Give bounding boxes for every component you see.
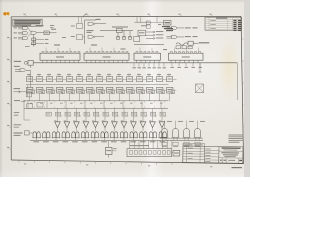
test point stubs TP1-TP3: [146, 31, 163, 39]
bus tie wires: [28, 101, 161, 109]
wire harness to J2: [130, 140, 172, 148]
input connector J1: [14, 60, 33, 68]
gap cluster labels: [50, 26, 66, 38]
power transistors Q40-Q43: [160, 121, 205, 147]
title block: [183, 146, 243, 163]
zone numbers top margin: [24, 13, 213, 16]
bus net labels: [30, 101, 165, 109]
output bus lower: [24, 107, 168, 109]
trimmer network R5: [176, 41, 209, 49]
clock circuit U4: [134, 17, 157, 42]
comparator U5b: [167, 35, 198, 38]
power labels +5V: [54, 45, 167, 50]
shift register U12: [134, 48, 161, 63]
divider chain X1: [25, 34, 48, 46]
strobe gate U6: [14, 66, 31, 87]
oscillator label: [36, 25, 44, 27]
orange handwritten mark: [4, 13, 9, 16]
row B input arrows: [14, 89, 27, 93]
row 8 labels left: [14, 131, 34, 136]
gate U3a: [85, 19, 107, 44]
gate U3b: [87, 31, 105, 39]
revision table: [205, 17, 242, 30]
sheet number note: [232, 167, 243, 169]
drawing border frame: [11, 16, 243, 163]
shift register U11: [84, 48, 129, 63]
connector J2: [127, 146, 172, 157]
comparator U5a: [167, 26, 198, 29]
notes block: [13, 19, 42, 26]
input gates U1 left cluster: [14, 27, 28, 40]
resistor pack row RP1-RP13: [46, 112, 165, 116]
notes paragraph right: [229, 135, 244, 142]
crystal Y1 labels: [150, 21, 173, 31]
output bus upper: [24, 100, 169, 102]
latch row bus: [26, 84, 169, 86]
note text line: [134, 44, 164, 46]
shift register U13: [169, 48, 204, 63]
bus stub labels: [133, 63, 202, 68]
gate U2: [28, 28, 44, 36]
pullup network R3: [71, 35, 85, 40]
register row U40-U54: [27, 87, 177, 100]
shift register U10: [40, 48, 80, 63]
pullup network R1: [71, 17, 83, 29]
emitter bus: [30, 139, 203, 141]
left feed network: [14, 85, 44, 127]
driver triangle row Q1-Q12: [54, 108, 166, 130]
relay K1: [105, 140, 116, 157]
data bus: [34, 63, 238, 100]
zone letters left margin: [7, 38, 11, 150]
connector P3: [196, 63, 204, 93]
zone numbers bottom margin: [19, 160, 212, 167]
jumper to title area: [172, 150, 180, 156]
RC network R2 C2: [100, 27, 133, 39]
output transistor pairs Q20-Q33: [32, 132, 167, 142]
latch row U20-U34: [27, 74, 177, 82]
application strip: [183, 144, 205, 147]
buffer A1: [44, 29, 57, 34]
zone letters right margin: [242, 39, 245, 127]
